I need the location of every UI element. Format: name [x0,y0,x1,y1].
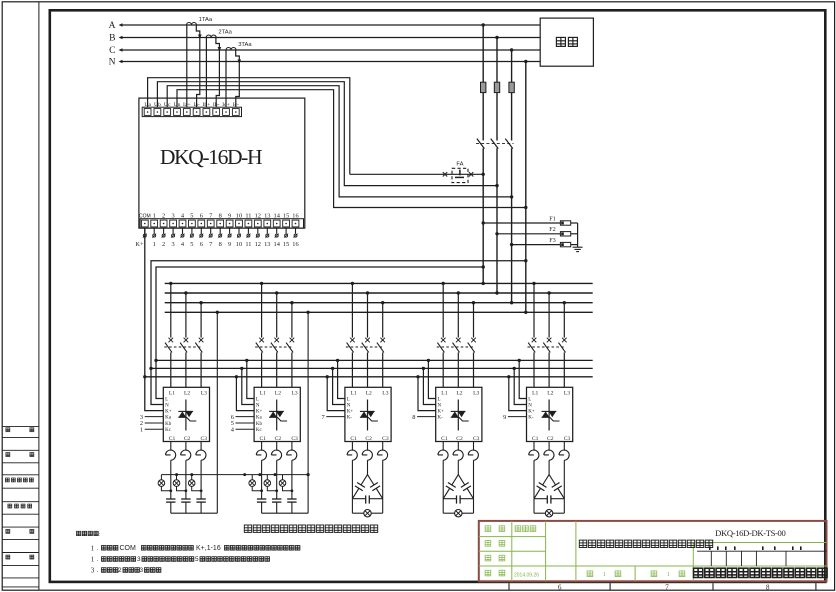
svg-text:3: 3 [140,567,144,574]
svg-text:L2: L2 [275,391,281,397]
svg-text:3: 3 [171,241,174,248]
module 5 L tap wire [519,360,526,398]
left strip box lines [2,426,39,587]
thyristor module U3 box [345,387,391,441]
junction bus B to phase B drop [495,291,498,294]
svg-text:Kc: Kc [165,428,172,433]
bus N [165,311,593,313]
svg-text:Ib+: Ib+ [202,102,210,108]
junction L feed [154,359,157,362]
svg-text:1: 1 [667,572,670,578]
svg-text:4: 4 [181,241,185,248]
caption 无功补偿控制（混补）原理接线图 [244,525,377,532]
title block grid [479,521,827,581]
control line L distribution [156,359,593,361]
svg-text:.: . [97,546,99,552]
fuse F1 [482,221,485,224]
svg-text:L2: L2 [547,391,553,397]
junction bus C to phase C drop [510,301,513,304]
svg-text:Ka: Ka [165,416,172,421]
junction bus N to neutral drop [524,311,527,314]
module 4 N tap wire [423,368,435,404]
svg-text:COM: COM [120,545,137,552]
svg-text:C3: C3 [564,436,571,442]
notes 技术说明 [77,531,99,535]
module 4 bus tap junctions [442,282,445,285]
breaker pole A [477,139,485,149]
svg-text:DKQ-16D-DK-TS-00: DKQ-16D-DK-TS-00 [715,528,785,538]
junction Un to N drop [524,206,527,209]
module 2 output inductors [256,442,296,461]
module 4 L tap wire [428,360,435,398]
svg-text:A: A [109,21,116,31]
module 2 bus tap junctions [260,282,263,285]
svg-text:12: 12 [255,213,261,220]
svg-text:2: 2 [162,213,165,220]
junction K+ feed [143,375,146,378]
thyristor module U1 box [163,387,209,441]
svg-text:L3: L3 [382,391,388,397]
module 5 switch feeders [534,283,564,337]
junction Uc to C drop [510,195,513,198]
svg-text:L1: L1 [350,391,356,397]
svg-text:Ia+: Ia+ [183,102,191,108]
phase line C [122,49,540,51]
module 4 delta capacitor bank [443,460,473,503]
bottom border ticks and numbers [509,583,816,590]
module 5 K+ tap wire [509,377,527,411]
module 1 star point bus [171,512,218,514]
svg-text:L3: L3 [201,391,207,397]
svg-text:5: 5 [190,241,193,248]
svg-text:Ic+: Ic+ [222,102,230,108]
junction bus A to phase A drop [482,282,485,285]
svg-text:Ic-: Ic- [233,102,239,108]
svg-text:Kb: Kb [165,422,172,427]
module 5 bus tap junctions [532,282,535,285]
junction Ub to B drop [495,184,498,187]
phase line B [122,37,540,39]
ground bus wire for F1-F3 [577,223,579,247]
switch-fuse Q1 (three pole) [164,338,203,388]
triac symbol in module 2 [269,400,287,431]
svg-text:15: 15 [283,213,289,220]
DKQ bottom terminal labels COM 1-16 [139,213,299,220]
svg-text:1: 1 [153,241,156,248]
svg-text:K-: K- [528,416,534,421]
svg-text:L3: L3 [291,391,297,397]
svg-text:K+: K+ [165,410,172,415]
svg-text:6: 6 [200,213,203,220]
phase A drop wire [482,25,484,141]
module 4 switch feeders [443,283,473,337]
controller DKQ-16D-H box [139,98,305,228]
module 5 indicator lamp [534,499,564,517]
svg-text:N: N [528,404,532,409]
svg-text:C2: C2 [275,436,282,442]
svg-text:K+: K+ [135,241,144,248]
module 1 output inductors [166,442,206,461]
svg-text:8: 8 [219,213,222,220]
svg-text:K+: K+ [256,410,263,415]
thyristor module U2 box [254,387,300,441]
svg-text:C1: C1 [169,436,176,442]
svg-text:C2: C2 [547,436,554,442]
wire Ic+ (CT 3TAa to terminal) [225,50,227,107]
svg-text:8: 8 [219,241,222,248]
svg-text:L3: L3 [564,391,570,397]
svg-text:4: 4 [231,426,235,433]
svg-text:.: . [97,557,99,563]
svg-text:L: L [256,398,259,403]
left strip label 旧底图总号 [5,478,33,482]
svg-text:9: 9 [228,213,231,220]
svg-text:1: 1 [153,213,156,220]
wire Ua sense (terminal to FA line) [148,78,350,175]
svg-text:10: 10 [236,241,242,248]
svg-text:8: 8 [412,414,415,421]
svg-text:COM: COM [139,214,151,220]
module 2 L tap wire [247,360,254,398]
svg-text:L2: L2 [456,391,462,397]
triac symbol in module 5 [542,400,560,431]
wire control L feed from phase A [156,267,483,399]
triac symbol in module 1 [178,400,196,431]
break mark x left of FA [443,172,447,176]
svg-text::: : [99,532,100,538]
svg-text:C1: C1 [350,436,357,442]
breaker pole B [491,139,499,149]
wire Ic- with arrow [236,50,240,107]
module 2 neutral riser [307,312,309,513]
svg-text:C3: C3 [291,436,298,442]
fuse F3 [510,243,513,246]
svg-text:L: L [347,398,350,403]
svg-text:3: 3 [137,556,141,563]
module 3 N tap wire [333,368,345,404]
fuse on phase A drop [481,82,486,92]
svg-text:14: 14 [274,213,281,220]
phase line A [122,24,540,26]
svg-text:F2: F2 [549,226,556,233]
svg-text:C: C [109,46,115,56]
svg-text:7: 7 [321,414,325,421]
svg-text:7: 7 [665,583,669,591]
left strip label 日期 [6,555,10,559]
svg-text:F1: F1 [549,215,556,222]
svg-text:Kb: Kb [256,422,263,427]
svg-text:3: 3 [171,213,174,220]
junction FA to A drop [482,173,485,176]
svg-text:7: 7 [209,241,213,248]
module 3 switch feeders [352,283,382,337]
svg-text:C2: C2 [365,436,372,442]
wire FA line left segment [350,173,452,175]
svg-text:Un: Un [174,102,181,108]
wire Ib+ (CT 2TAa to terminal) [205,38,207,108]
module 2 K+ tap wire [236,377,254,411]
module 1 bus tap junctions [169,282,172,285]
svg-text:C3: C3 [382,436,389,442]
fuse on phase B drop [494,82,499,92]
phase B drop wire [496,38,498,141]
svg-text:L: L [165,398,168,403]
svg-text:Ka: Ka [256,416,263,421]
module 3 indicator lamp [352,499,382,517]
contactor FA [452,168,468,182]
wire K+ from COM output [145,228,164,411]
svg-text:K+: K+ [528,410,535,415]
svg-text:13: 13 [264,241,270,248]
svg-text:1: 1 [140,426,143,433]
module 2 star point bus [262,512,309,514]
svg-text:C1: C1 [532,436,539,442]
phase C drop wire [511,50,513,141]
revision table [697,551,827,566]
svg-text:L1: L1 [441,391,447,397]
sheet count 共1张 [587,571,593,577]
svg-text:14: 14 [274,241,281,248]
triac symbol in module 3 [360,400,378,431]
svg-text:1TAa: 1TAa [199,17,213,23]
svg-text:6: 6 [200,241,203,248]
lamp common neutral line [161,474,308,476]
switch-fuse Q5 (three pole) [528,338,567,388]
svg-text:L1: L1 [532,391,538,397]
DKQ output number labels [135,241,298,248]
switch-fuse Q2 (three pole) [255,338,294,388]
module 1 capacitors [166,460,206,513]
module 2 switch feeders [262,283,292,337]
module 3 L tap wire [338,360,345,398]
svg-text:3TAa: 3TAa [238,42,252,48]
wire Ib- with arrow [216,38,220,108]
svg-text:16: 16 [292,213,298,220]
current transformer 1TAa [187,23,197,26]
wire Un sense [177,90,526,208]
control line N distribution [151,367,593,369]
bus C [165,302,593,304]
svg-text:K-: K- [347,416,353,421]
company name 广东迪控电子科技有限公司 [694,568,828,577]
ground symbol [573,246,583,248]
svg-text:B: B [109,34,115,44]
svg-text:DKQ-16D-H: DKQ-16D-H [160,145,262,169]
svg-text:2TAa: 2TAa [218,29,232,35]
module 5 N tap wire [514,368,526,404]
module 3 delta capacitor bank [352,460,382,503]
svg-text:Kc: Kc [256,428,263,433]
svg-text:C1: C1 [260,436,267,442]
svg-text:9: 9 [503,414,506,421]
module 2 indicator lamps [249,475,293,493]
svg-text:15: 15 [283,241,289,248]
svg-text:6: 6 [558,583,562,591]
break mark x right of FA [469,172,473,176]
svg-text:C2: C2 [456,436,463,442]
svg-text:Ub: Ub [154,102,161,108]
module 1 gate wires 3/2/1 [140,414,163,434]
breaker linkage dashed [476,143,514,145]
svg-text:L: L [438,398,441,403]
svg-text:C2: C2 [184,436,191,442]
svg-text:13: 13 [264,213,270,220]
module 2 gate wires 6/5/4 [231,414,254,434]
module 5 output inductors [529,442,569,461]
svg-text:1: 1 [91,545,95,553]
svg-text:K+: K+ [438,410,445,415]
svg-text:12: 12 [255,241,261,248]
wire Ia- with arrow [196,25,200,107]
fuse on phase C drop [509,82,514,92]
svg-text:2: 2 [162,241,165,248]
svg-text:1: 1 [91,556,95,564]
current transformer 3TAa [226,48,236,51]
svg-text:F3: F3 [549,237,556,244]
breaker pole C [505,139,513,149]
svg-text:L3: L3 [473,391,479,397]
left strip label 描校 [6,453,10,457]
svg-text:11: 11 [245,213,251,220]
bus A [165,282,593,284]
svg-text:Ia-: Ia- [193,102,199,108]
svg-text:1: 1 [603,572,606,578]
module 4 output inductors [438,442,478,461]
DKQ top terminal strip [142,107,241,116]
svg-text:Ua: Ua [144,102,151,108]
load box 负载 [540,18,593,66]
svg-text:8: 8 [766,583,770,591]
svg-text:5: 5 [190,213,193,220]
svg-text:C3: C3 [201,436,208,442]
svg-text:N: N [165,404,169,409]
svg-text:L2: L2 [184,391,190,397]
svg-text:Ib-: Ib- [213,102,220,108]
svg-text:Uc: Uc [164,102,171,108]
title block border [479,521,827,581]
current transformer 2TAa [206,35,216,38]
thyristor module U5 box [527,387,573,441]
left margin strip divider [38,2,40,590]
switch-fuse Q4 (three pole) [437,338,476,388]
phase line N [122,61,540,63]
svg-text:N: N [438,404,442,409]
wire Ub sense [157,82,497,186]
svg-text:K+,1-16: K+,1-16 [196,545,221,552]
svg-text:FA: FA [456,161,463,167]
drawing title in block [579,540,712,547]
svg-text:K+: K+ [347,410,354,415]
DKQ output connector symbols [143,228,298,238]
switch-fuse Q3 (three pole) [346,338,385,388]
svg-text:L2: L2 [366,391,372,397]
svg-text:3: 3 [91,567,95,575]
wire Ia+ (CT 1TAa to terminal) [186,25,188,107]
svg-text:L1: L1 [169,391,175,397]
svg-text:N: N [347,404,351,409]
module 4 indicator lamp [443,499,473,517]
svg-text:2014.09.26: 2014.09.26 [514,573,539,579]
module 1 indicator lamps [158,475,202,493]
svg-text:C3: C3 [473,436,480,442]
svg-text:L1: L1 [260,391,266,397]
wire Uc sense [167,86,511,197]
triac symbol in module 4 [451,400,469,431]
left strip label 描图 [6,428,10,432]
junction N feed [149,367,152,370]
svg-text:10: 10 [236,213,242,220]
svg-text:K-: K- [438,416,444,421]
left strip label 底图总号 [8,504,32,508]
svg-text:16: 16 [292,241,298,248]
svg-text:2: 2 [118,567,122,574]
svg-text:.: . [97,568,99,574]
svg-text:11: 11 [245,241,251,248]
neutral drop wire [525,62,527,313]
control line K+ distribution [145,376,593,378]
module 2 capacitors [257,460,297,513]
svg-text:N: N [256,404,260,409]
svg-text:L: L [528,398,531,403]
module 4 K+ tap wire [418,377,436,411]
bus B [165,292,593,294]
module 3 bus tap junctions [351,282,354,285]
module 3 output inductors [347,442,387,461]
wire FA line right segment [452,173,483,175]
module 5 delta capacitor bank [534,460,564,503]
module 3 K+ tap wire [327,377,345,411]
module 1 neutral riser [216,312,218,513]
page count 第1页 [651,571,657,577]
thyristor module U4 box [436,387,482,441]
svg-text:9: 9 [228,241,231,248]
module 2 N tap wire [242,368,254,404]
svg-text:C1: C1 [441,436,448,442]
wire control N feed from neutral [151,261,526,405]
module 1 switch feeders [171,283,201,337]
DKQ bottom terminal strip [140,219,303,228]
fuse F2 [495,232,498,235]
svg-text:5: 5 [195,556,199,563]
left strip label 签字 [6,529,10,533]
title block labels [485,526,491,532]
svg-text:N: N [109,58,116,68]
